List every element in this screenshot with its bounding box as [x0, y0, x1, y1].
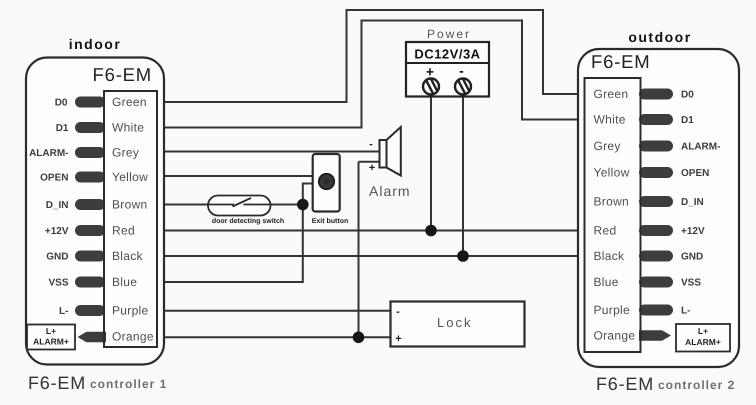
svg-text:Blue: Blue — [112, 275, 137, 289]
svg-text:OPEN: OPEN — [40, 173, 68, 184]
svg-text:VSS: VSS — [48, 278, 68, 289]
svg-text:F6-EM: F6-EM — [93, 64, 153, 85]
svg-text:controller 1: controller 1 — [90, 377, 167, 391]
svg-text:Brown: Brown — [594, 195, 630, 209]
svg-text:Orange: Orange — [594, 329, 636, 343]
svg-text:door detecting switch: door detecting switch — [212, 217, 284, 225]
svg-text:Power: Power — [427, 27, 471, 41]
svg-text:Grey: Grey — [594, 139, 621, 153]
svg-text:D1: D1 — [681, 115, 694, 126]
svg-text:ALARM-: ALARM- — [681, 142, 720, 153]
svg-text:outdoor: outdoor — [628, 29, 691, 45]
svg-text:ALARM+: ALARM+ — [33, 337, 69, 347]
svg-text:-: - — [459, 63, 464, 79]
svg-text:+: + — [426, 64, 434, 80]
svg-text:OPEN: OPEN — [681, 168, 709, 179]
svg-text:D0: D0 — [681, 90, 694, 101]
svg-text:F6-EM: F6-EM — [591, 51, 651, 72]
svg-text:Red: Red — [112, 224, 135, 238]
svg-text:Black: Black — [594, 249, 626, 263]
svg-text:F6-EM: F6-EM — [596, 374, 654, 394]
svg-text:L-: L- — [59, 306, 68, 317]
svg-text:Blue: Blue — [594, 275, 619, 289]
svg-text:Black: Black — [112, 249, 144, 263]
svg-text:controller 2: controller 2 — [658, 378, 735, 392]
svg-text:Brown: Brown — [112, 198, 148, 212]
svg-text:Lock: Lock — [437, 315, 472, 330]
svg-text:F6-EM: F6-EM — [28, 373, 86, 393]
svg-text:Purple: Purple — [594, 303, 631, 317]
svg-text:GND: GND — [46, 252, 68, 263]
svg-text:D_IN: D_IN — [681, 197, 704, 208]
svg-text:VSS: VSS — [681, 278, 701, 289]
svg-text:+12V: +12V — [45, 226, 69, 237]
svg-text:ALARM+: ALARM+ — [685, 337, 721, 347]
svg-text:DC12V/3A: DC12V/3A — [414, 47, 480, 62]
svg-text:D1: D1 — [56, 123, 69, 134]
svg-text:Red: Red — [594, 224, 617, 238]
svg-text:D_IN: D_IN — [46, 200, 69, 211]
svg-text:L-: L- — [681, 306, 690, 317]
svg-text:ALARM-: ALARM- — [29, 148, 68, 159]
svg-text:Orange: Orange — [112, 330, 154, 344]
svg-text:White: White — [112, 121, 144, 135]
svg-text:GND: GND — [681, 252, 703, 263]
svg-text:D0: D0 — [55, 98, 68, 109]
svg-text:Exit button: Exit button — [312, 217, 349, 225]
svg-text:Grey: Grey — [112, 146, 139, 160]
svg-text:indoor: indoor — [69, 36, 122, 52]
svg-text:Purple: Purple — [112, 304, 149, 318]
svg-text:Alarm: Alarm — [369, 183, 411, 199]
svg-text:+: + — [395, 333, 401, 345]
svg-text:Green: Green — [594, 87, 629, 101]
svg-text:L+: L+ — [698, 326, 708, 336]
svg-text:L+: L+ — [46, 326, 56, 336]
svg-text:+12V: +12V — [681, 226, 705, 237]
svg-text:Green: Green — [112, 95, 147, 109]
svg-text:White: White — [594, 113, 626, 127]
svg-text:-: - — [396, 306, 400, 318]
svg-text:+: + — [369, 162, 375, 174]
svg-text:-: - — [369, 139, 373, 151]
svg-text:Yellow: Yellow — [112, 170, 148, 184]
svg-text:Yellow: Yellow — [594, 166, 630, 180]
